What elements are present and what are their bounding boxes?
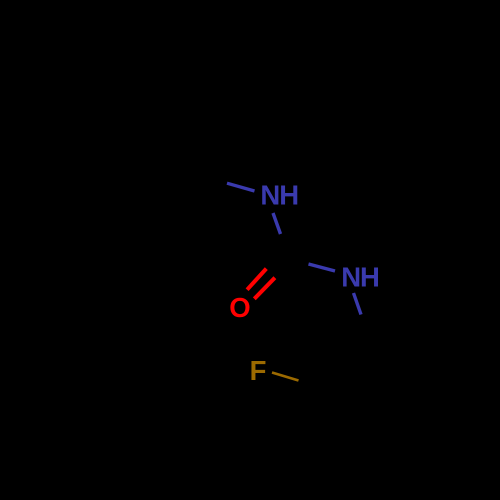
wire: C=O double bond outer line (red half) <box>254 278 275 299</box>
wire: bond N2 to fluorophenyl C (blue half) <box>354 293 362 315</box>
svg-text:NH: NH <box>341 262 379 293</box>
svg-text:O: O <box>229 292 250 323</box>
wire: bond carbonyl C to N2 (blue half) <box>309 264 336 271</box>
svg-text:F: F <box>250 355 267 386</box>
wire: bond F to fluorophenyl C (gold half) <box>272 373 299 381</box>
svg-text:NH: NH <box>260 180 298 211</box>
wire: bond N1 to carbonyl C (blue half) <box>273 213 281 234</box>
wire: C=O double bond inner line (red half) <box>247 269 266 290</box>
wire: bond phenyl C1 to N1 (blue half) <box>227 183 255 191</box>
